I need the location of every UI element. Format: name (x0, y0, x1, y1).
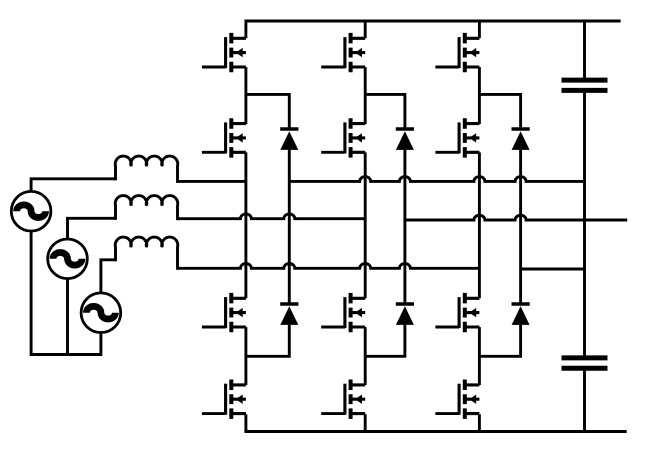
transistor Q4 (202, 380, 246, 419)
wire phase B to leg 2 with hops (178, 214, 366, 219)
wire Q7 source to Q8 drain (364, 327, 367, 385)
wire neutral V1 bottom (31, 231, 101, 355)
diode D5 (511, 129, 529, 150)
diode D4 (396, 304, 414, 325)
wire node X3 to D3 (365, 94, 405, 127)
wire V2 top to L2 (68, 218, 117, 239)
AC source V2 (48, 239, 88, 279)
diode D2 (280, 304, 298, 325)
wire Q9 source to Q10 drain (478, 67, 481, 124)
transistor Q2 (202, 118, 246, 157)
wire D2 anode to node X2 (246, 325, 289, 357)
wire DC bus top segment (583, 21, 586, 78)
wire phase C to leg 3 with hops (178, 264, 480, 269)
wire midpoint line C (521, 268, 585, 271)
wire Q8 source to rail (364, 414, 367, 431)
transistor Q3 (202, 293, 246, 332)
wire neutral V2 bottom (66, 279, 69, 355)
wire DC bus middle segment (583, 93, 586, 356)
wire V1 top to L1 (31, 179, 116, 192)
wire D3 anode to midpoint column (403, 150, 406, 303)
transistor Q5 (321, 33, 365, 72)
transistor Q6 (321, 118, 365, 157)
transistor Q9 (435, 33, 479, 72)
wire node X1 to D1 (246, 94, 289, 127)
AC source V1 (11, 191, 51, 231)
wire Q11 source to Q12 drain (478, 327, 481, 385)
transistor Q12 (435, 380, 479, 419)
wire Q9 drain to rail (478, 21, 481, 38)
inductor L3 (113, 237, 180, 268)
wire Q3 source to Q4 drain (244, 327, 247, 385)
wire Q2 source to Q3 drain (244, 152, 247, 298)
wire D4 anode to node X4 (365, 325, 405, 357)
wire V3 top to L3 (101, 260, 117, 293)
transistor Q11 (435, 293, 479, 332)
capacitor C1 (562, 80, 608, 90)
wire D1 anode to midpoint column (288, 150, 291, 303)
wire Q5 drain to rail (364, 21, 367, 38)
wire DC bus bottom segment (583, 371, 586, 432)
wire D6 anode to node X6 (479, 325, 520, 357)
wire phase A to leg 1 (178, 180, 246, 183)
wire Q10 source to Q11 drain (478, 152, 481, 298)
capacitor C2 (562, 358, 608, 368)
diode D1 (280, 129, 298, 150)
wire Q5 source to Q6 drain (364, 67, 367, 124)
wire Q1 source to Q2 drain (244, 67, 247, 124)
wire midpoint line B with hops (405, 215, 627, 220)
wire D5 anode to midpoint column (519, 150, 522, 303)
diode D6 (511, 304, 529, 325)
transistor Q1 (202, 33, 246, 72)
inductor L2 (113, 196, 180, 219)
wire Q6 source to Q7 drain (364, 152, 367, 298)
wire top DC+ rail (246, 21, 621, 38)
AC source V3 (81, 293, 121, 333)
wire node X5 to D5 (479, 94, 520, 127)
wire midpoint line A with hops (289, 177, 584, 182)
transistor Q10 (435, 118, 479, 157)
inductor L1 (113, 156, 180, 181)
wire Q12 source to rail (478, 414, 481, 431)
wire bottom DC- rail (246, 414, 627, 431)
transistor Q7 (321, 293, 365, 332)
transistor Q8 (321, 380, 365, 419)
diode D3 (396, 129, 414, 150)
